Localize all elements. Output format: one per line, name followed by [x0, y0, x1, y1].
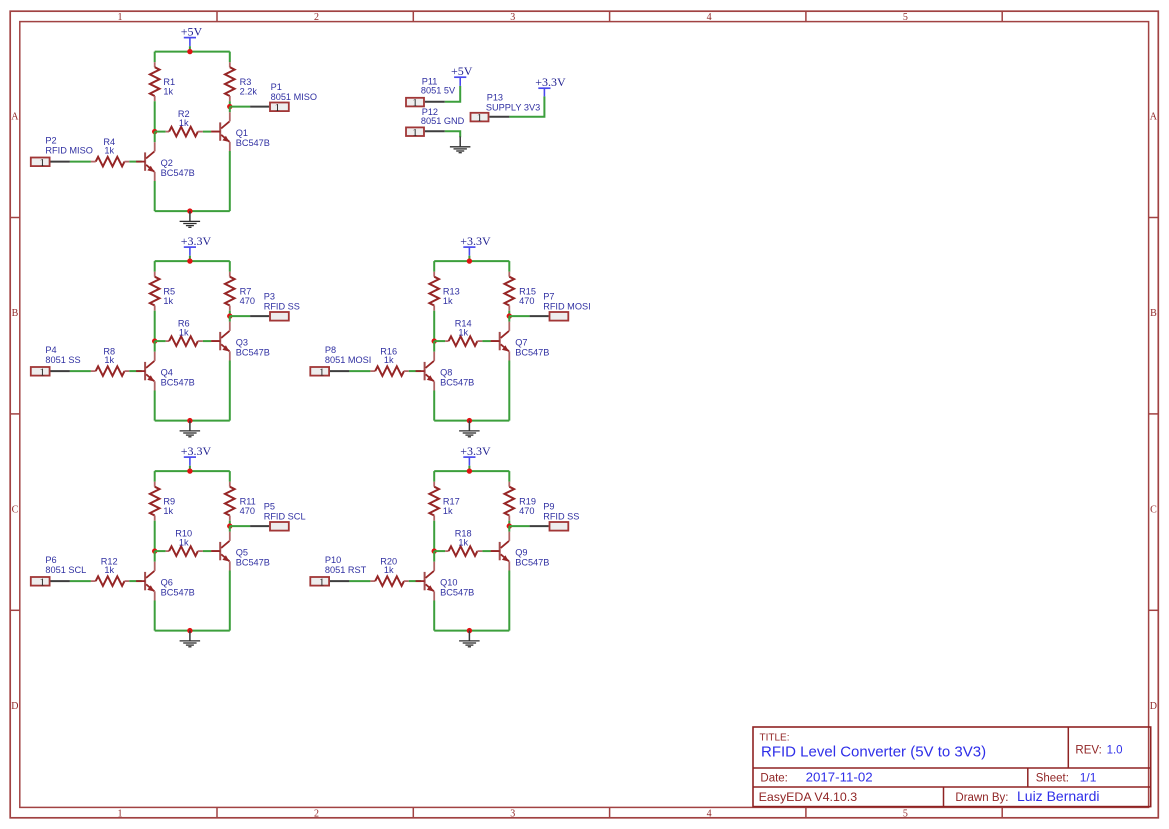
transistor Q10 BC547B [416, 562, 475, 601]
wire emitter (Q9 to bottom rail) [508, 571, 510, 631]
svg-text:1: 1 [319, 366, 325, 378]
svg-text:1k: 1k [443, 506, 453, 516]
node ground tap (R5 cell) [187, 418, 192, 423]
wire left mid (R9 to mid node) [154, 521, 156, 551]
wire left upper (R17 top pin) [433, 471, 435, 482]
wire base lead (Q7) [491, 340, 499, 342]
svg-text:Q7: Q7 [515, 338, 527, 348]
svg-text:1/1: 1/1 [1080, 770, 1097, 784]
transistor Q8 BC547B [416, 352, 475, 391]
svg-text:Q8: Q8 [440, 368, 452, 378]
port P7 lead [530, 315, 549, 317]
wire collector (Q9) [508, 526, 510, 532]
wire bottom rail (R1 cell) [155, 210, 230, 212]
port P4 lead [51, 370, 70, 372]
node power tap (R5 cell) [187, 258, 192, 263]
wire mid stub left [155, 550, 166, 552]
svg-text:BC547B: BC547B [161, 377, 195, 387]
wire mid stub right [482, 550, 490, 552]
power flag +5V (P11) [451, 64, 473, 86]
power flag +5V (R1 cell) [181, 24, 203, 51]
wire output stub (P7) [509, 315, 529, 317]
svg-text:5: 5 [903, 12, 908, 23]
svg-text:P13: P13 [487, 93, 503, 103]
svg-text:Q6: Q6 [161, 578, 173, 588]
svg-text:RFID Level Converter (5V to 3V: RFID Level Converter (5V to 3V3) [761, 743, 986, 760]
svg-text:+3.3V: +3.3V [460, 234, 491, 248]
wire right to output node [229, 311, 231, 316]
wire mid stub right [203, 550, 211, 552]
transistor Q6 BC547B [136, 562, 195, 601]
svg-text:P6: P6 [45, 555, 56, 565]
resistor R9 [150, 482, 175, 521]
svg-text:1: 1 [412, 127, 418, 139]
resistor R14 [445, 319, 482, 346]
node power tap (R17 cell) [467, 468, 472, 473]
resistor R3 [225, 62, 257, 101]
svg-text:4: 4 [707, 808, 712, 819]
svg-text:1: 1 [275, 102, 281, 114]
wire input (P2 to R4) [70, 161, 91, 163]
svg-text:BC547B: BC547B [161, 587, 195, 597]
svg-text:D: D [11, 701, 18, 712]
frame row letters A-D [11, 112, 1158, 712]
svg-text:1: 1 [412, 97, 418, 109]
wire top rail +3.3V net (R13 cell) [434, 260, 509, 262]
svg-text:Luiz Bernardi: Luiz Bernardi [1017, 788, 1100, 804]
svg-text:BC547B: BC547B [236, 557, 270, 567]
port P10 lead [330, 580, 349, 582]
node output (P5) [227, 523, 232, 528]
svg-text:P5: P5 [264, 502, 275, 512]
port P4 8051 SS [31, 366, 50, 378]
transistor Q2 BC547B [136, 142, 195, 181]
port P2 lead [51, 161, 70, 163]
title block TITLE [760, 732, 790, 743]
wire left upper (R13 top pin) [433, 261, 435, 272]
ground (R9 cell) [180, 631, 201, 647]
wire right upper (R7 top pin) [229, 261, 231, 272]
wire right to output node [508, 521, 510, 526]
wire right to output node [508, 311, 510, 316]
node power tap (R9 cell) [187, 468, 192, 473]
node ground tap (R1 cell) [187, 208, 192, 213]
svg-text:P4: P4 [45, 345, 56, 355]
wire bottom rail (R9 cell) [155, 630, 230, 632]
label P12 [421, 107, 465, 126]
node mid (R10) [152, 548, 157, 553]
resistor R20 [370, 556, 408, 586]
svg-text:RFID SS: RFID SS [543, 511, 579, 521]
node mid (R18) [432, 548, 437, 553]
resistor R12 [91, 556, 129, 586]
svg-text:P1: P1 [271, 82, 282, 92]
svg-text:D: D [1150, 701, 1157, 712]
wire collector (Q7) [508, 316, 510, 322]
transistor Q3 BC547B [211, 322, 270, 361]
resistor R6 [166, 319, 203, 346]
label P9 [543, 502, 579, 522]
svg-text:+5V: +5V [181, 24, 203, 38]
transistor Q7 BC547B [491, 322, 550, 361]
svg-text:1k: 1k [384, 565, 394, 575]
svg-text:Q1: Q1 [236, 128, 248, 138]
transistor Q1 BC547B [211, 112, 270, 151]
label P10 [325, 555, 367, 575]
port P8 lead [330, 370, 349, 372]
svg-text:3: 3 [510, 12, 515, 23]
wire mid stub left [434, 340, 445, 342]
port P6 8051 SCL [31, 576, 50, 588]
svg-text:Q2: Q2 [161, 158, 173, 168]
wire output stub (P3) [230, 315, 250, 317]
wire P13 to +3.3V [509, 96, 544, 116]
wire mid stub right [482, 340, 490, 342]
resistor R19 [505, 482, 536, 521]
wire collector (Q6 to mid node) [154, 551, 156, 562]
svg-text:Date:: Date: [760, 772, 788, 784]
svg-text:1k: 1k [163, 296, 173, 306]
node power tap (R1 cell) [187, 49, 192, 54]
svg-text:C: C [12, 505, 19, 516]
svg-text:+3.3V: +3.3V [181, 444, 212, 458]
resistor R18 [445, 529, 482, 556]
svg-text:8051 MOSI: 8051 MOSI [325, 355, 371, 365]
resistor R1 [150, 62, 175, 101]
port P6 lead [51, 580, 70, 582]
svg-text:1: 1 [477, 112, 483, 124]
wire right to output node [229, 521, 231, 526]
port P11 8051 5V [406, 97, 424, 109]
svg-text:Q3: Q3 [236, 338, 248, 348]
power flag +3.3V (R13 cell) [460, 234, 491, 261]
wire emitter (Q7 to bottom rail) [508, 361, 510, 421]
svg-text:1: 1 [118, 808, 123, 819]
port P5 lead [250, 525, 269, 527]
svg-text:8051 GND: 8051 GND [421, 116, 465, 126]
svg-text:1k: 1k [179, 537, 189, 547]
resistor R2 [166, 109, 203, 136]
power flag +3.3V (P13) [535, 75, 566, 96]
svg-text:BC547B: BC547B [236, 347, 270, 357]
svg-text:8051 SCL: 8051 SCL [45, 565, 86, 575]
wire bottom rail (R5 cell) [155, 420, 230, 422]
svg-text:RFID SCL: RFID SCL [264, 511, 306, 521]
port P11 lead [425, 101, 445, 103]
title block EasyEDA version [759, 790, 858, 804]
svg-text:1k: 1k [163, 86, 173, 96]
label P2 [45, 135, 92, 155]
port P12 lead [425, 130, 445, 132]
wire right upper (R19 top pin) [508, 471, 510, 482]
svg-text:BC547B: BC547B [515, 557, 549, 567]
port P8 8051 MOSI [310, 366, 329, 378]
wire collector (Q2 to mid node) [154, 132, 156, 143]
svg-text:2.2k: 2.2k [240, 86, 258, 96]
node mid (R2) [152, 129, 157, 134]
wire input (P8 to R16) [349, 370, 370, 372]
node output (P1) [227, 104, 232, 109]
svg-text:P3: P3 [264, 292, 275, 302]
wire mid stub left [155, 340, 166, 342]
resistor R4 [91, 137, 129, 167]
svg-text:REV:: REV: [1075, 745, 1101, 757]
wire emitter (Q5 to bottom rail) [229, 571, 231, 631]
label P7 [543, 292, 590, 312]
wire left mid (R5 to mid node) [154, 311, 156, 341]
svg-text:RFID SS: RFID SS [264, 301, 300, 311]
label P8 [325, 345, 371, 365]
svg-text:1k: 1k [104, 355, 114, 365]
svg-text:Drawn By:: Drawn By: [955, 792, 1008, 804]
svg-text:P7: P7 [543, 292, 554, 302]
wire mid stub left [155, 131, 166, 133]
svg-text:Q5: Q5 [236, 548, 248, 558]
svg-text:+3.3V: +3.3V [460, 444, 491, 458]
title block frame [753, 727, 1151, 807]
power flag +3.3V (R5 cell) [181, 234, 212, 261]
transistor Q4 BC547B [136, 352, 195, 391]
port P1 8051 MISO [270, 102, 289, 114]
svg-text:8051 SS: 8051 SS [45, 355, 80, 365]
wire R4 to Q2 base [129, 161, 141, 163]
wire R8 to Q4 base [129, 370, 141, 372]
port P9 lead [530, 525, 549, 527]
wire left mid (R17 to mid node) [433, 521, 435, 551]
node ground tap (R17 cell) [467, 628, 472, 633]
wire base lead (Q5) [211, 550, 219, 552]
wire right to output node [229, 101, 231, 106]
title block Drawn By [955, 788, 1099, 804]
svg-text:3: 3 [510, 808, 515, 819]
svg-text:BC547B: BC547B [236, 138, 270, 148]
resistor R11 [225, 482, 256, 521]
node power tap (R13 cell) [467, 258, 472, 263]
port P3 lead [250, 315, 269, 317]
port P1 lead [250, 106, 269, 108]
wire collector (Q8 to mid node) [433, 341, 435, 352]
wire emitter (Q1 to bottom rail) [229, 151, 231, 211]
svg-text:1k: 1k [104, 146, 114, 156]
wire emitter (Q10 to bottom rail) [433, 601, 435, 631]
wire emitter (Q2 to bottom rail) [154, 181, 156, 211]
title block Sheet [1036, 770, 1097, 784]
node output (P7) [507, 313, 512, 318]
wire bottom rail (R17 cell) [434, 630, 509, 632]
svg-text:470: 470 [240, 296, 255, 306]
title block REV [1075, 745, 1122, 757]
svg-text:P9: P9 [543, 502, 554, 512]
wire right upper (R11 top pin) [229, 471, 231, 482]
wire base lead (Q9) [491, 550, 499, 552]
wire emitter (Q4 to bottom rail) [154, 391, 156, 421]
label P1 [271, 82, 317, 102]
wire right upper (R3 top pin) [229, 52, 231, 63]
resistor R10 [166, 529, 203, 556]
svg-text:P2: P2 [45, 135, 56, 145]
svg-text:TITLE:: TITLE: [760, 732, 790, 743]
svg-text:RFID MOSI: RFID MOSI [543, 301, 590, 311]
svg-text:Q10: Q10 [440, 578, 457, 588]
ground (R5 cell) [180, 421, 201, 437]
svg-text:C: C [1150, 505, 1157, 516]
power flag +3.3V (R9 cell) [181, 444, 212, 471]
wire collector (Q5) [229, 526, 231, 532]
port P7 RFID MOSI [550, 312, 569, 321]
port P3 RFID SS [270, 312, 289, 321]
port P10 8051 RST [310, 576, 329, 588]
svg-text:Q9: Q9 [515, 548, 527, 558]
svg-text:1: 1 [39, 157, 45, 169]
label P11 [421, 76, 456, 95]
wire top rail +3.3V net (R17 cell) [434, 470, 509, 472]
svg-text:1.0: 1.0 [1107, 745, 1123, 757]
svg-text:1k: 1k [179, 327, 189, 337]
svg-text:2: 2 [314, 12, 319, 23]
svg-text:B: B [12, 308, 19, 319]
wire base lead (Q1) [211, 131, 219, 133]
wire mid stub right [203, 131, 211, 133]
svg-text:P10: P10 [325, 555, 341, 565]
wire top rail +3.3V net (R9 cell) [155, 470, 230, 472]
wire base lead (Q3) [211, 340, 219, 342]
svg-text:BC547B: BC547B [515, 347, 549, 357]
svg-text:1: 1 [39, 366, 45, 378]
svg-text:8051 RST: 8051 RST [325, 565, 367, 575]
svg-text:2017-11-02: 2017-11-02 [806, 769, 873, 784]
wire mid stub left [434, 550, 445, 552]
wire collector (Q10 to mid node) [433, 551, 435, 562]
svg-text:+3.3V: +3.3V [535, 75, 566, 89]
transistor Q9 BC547B [491, 532, 550, 571]
svg-text:8051 5V: 8051 5V [421, 85, 456, 95]
wire emitter (Q8 to bottom rail) [433, 391, 435, 421]
node output (P3) [227, 313, 232, 318]
wire emitter (Q3 to bottom rail) [229, 361, 231, 421]
port P9 RFID SS [550, 522, 569, 531]
label P5 [264, 502, 306, 522]
wire left upper (R5 top pin) [154, 261, 156, 272]
svg-text:4: 4 [707, 12, 712, 23]
svg-text:1k: 1k [458, 537, 468, 547]
resistor R7 [225, 272, 255, 311]
ground (P12) [450, 137, 471, 153]
wire P12 to ground [445, 131, 460, 137]
node ground tap (R13 cell) [467, 418, 472, 423]
node mid (R6) [152, 338, 157, 343]
port P12 8051 GND [406, 127, 424, 139]
resistor R16 [370, 346, 408, 376]
node output (P9) [507, 523, 512, 528]
wire bottom rail (R13 cell) [434, 420, 509, 422]
ground (R17 cell) [459, 631, 480, 647]
svg-text:8051 MISO: 8051 MISO [271, 92, 317, 102]
wire collector (Q3) [229, 316, 231, 322]
resistor R8 [91, 346, 129, 376]
svg-text:BC547B: BC547B [440, 587, 474, 597]
port P13 SUPPLY 3V3 [471, 112, 489, 124]
svg-text:470: 470 [519, 296, 534, 306]
node mid (R14) [432, 338, 437, 343]
wire mid stub right [203, 340, 211, 342]
svg-text:1k: 1k [179, 118, 189, 128]
svg-text:1: 1 [118, 12, 123, 23]
wire R12 to Q6 base [129, 580, 141, 582]
power flag +3.3V (R17 cell) [460, 444, 491, 471]
svg-text:Sheet:: Sheet: [1036, 772, 1069, 784]
wire collector (Q4 to mid node) [154, 341, 156, 352]
transistor Q5 BC547B [211, 532, 270, 571]
svg-text:Q4: Q4 [161, 368, 173, 378]
resistor R13 [429, 272, 459, 311]
svg-text:470: 470 [240, 506, 255, 516]
wire P11 to +5V [445, 86, 460, 102]
wire input (P6 to R12) [70, 580, 91, 582]
port P13 lead [489, 116, 509, 118]
svg-text:470: 470 [519, 506, 534, 516]
svg-text:1: 1 [319, 576, 325, 588]
wire top rail +5V net (R1 cell) [155, 51, 230, 53]
wire left mid (R13 to mid node) [433, 311, 435, 341]
svg-text:1k: 1k [458, 327, 468, 337]
wire right upper (R15 top pin) [508, 261, 510, 272]
svg-text:+3.3V: +3.3V [181, 234, 212, 248]
svg-text:1: 1 [39, 576, 45, 588]
svg-text:BC547B: BC547B [161, 168, 195, 178]
svg-text:+5V: +5V [451, 64, 473, 78]
wire output stub (P5) [230, 525, 250, 527]
wire output stub (P1) [230, 106, 250, 108]
wire R16 to Q8 base [409, 370, 421, 372]
svg-text:B: B [1150, 308, 1157, 319]
port P5 RFID SCL [270, 522, 289, 531]
title block Date [760, 769, 872, 784]
label P13 [486, 93, 540, 113]
svg-text:EasyEDA V4.10.3: EasyEDA V4.10.3 [759, 790, 858, 804]
wire collector (Q1) [229, 107, 231, 113]
wire R20 to Q10 base [409, 580, 421, 582]
svg-text:1k: 1k [384, 355, 394, 365]
node ground tap (R9 cell) [187, 628, 192, 633]
svg-text:1k: 1k [104, 565, 114, 575]
svg-text:A: A [11, 112, 19, 123]
svg-text:1k: 1k [443, 296, 453, 306]
wire input (P4 to R8) [70, 370, 91, 372]
wire left mid (R1 to mid node) [154, 101, 156, 131]
svg-text:BC547B: BC547B [440, 377, 474, 387]
wire top rail +3.3V net (R5 cell) [155, 260, 230, 262]
port P2 RFID MISO [31, 157, 50, 169]
label P4 [45, 345, 80, 365]
wire left upper (R9 top pin) [154, 471, 156, 482]
ground (R13 cell) [459, 421, 480, 437]
resistor R17 [429, 482, 459, 521]
svg-text:P8: P8 [325, 345, 336, 355]
resistor R5 [150, 272, 175, 311]
svg-text:5: 5 [903, 808, 908, 819]
title text RFID Level Converter [761, 743, 986, 760]
svg-text:SUPPLY 3V3: SUPPLY 3V3 [486, 102, 540, 112]
svg-text:A: A [1150, 112, 1158, 123]
svg-text:1k: 1k [163, 506, 173, 516]
ground (R1 cell) [180, 211, 201, 227]
svg-text:2: 2 [314, 808, 319, 819]
frame column numbers 1-5 [118, 12, 908, 819]
wire output stub (P9) [509, 525, 529, 527]
wire emitter (Q6 to bottom rail) [154, 601, 156, 631]
label P6 [45, 555, 86, 575]
wire input (P10 to R20) [349, 580, 370, 582]
